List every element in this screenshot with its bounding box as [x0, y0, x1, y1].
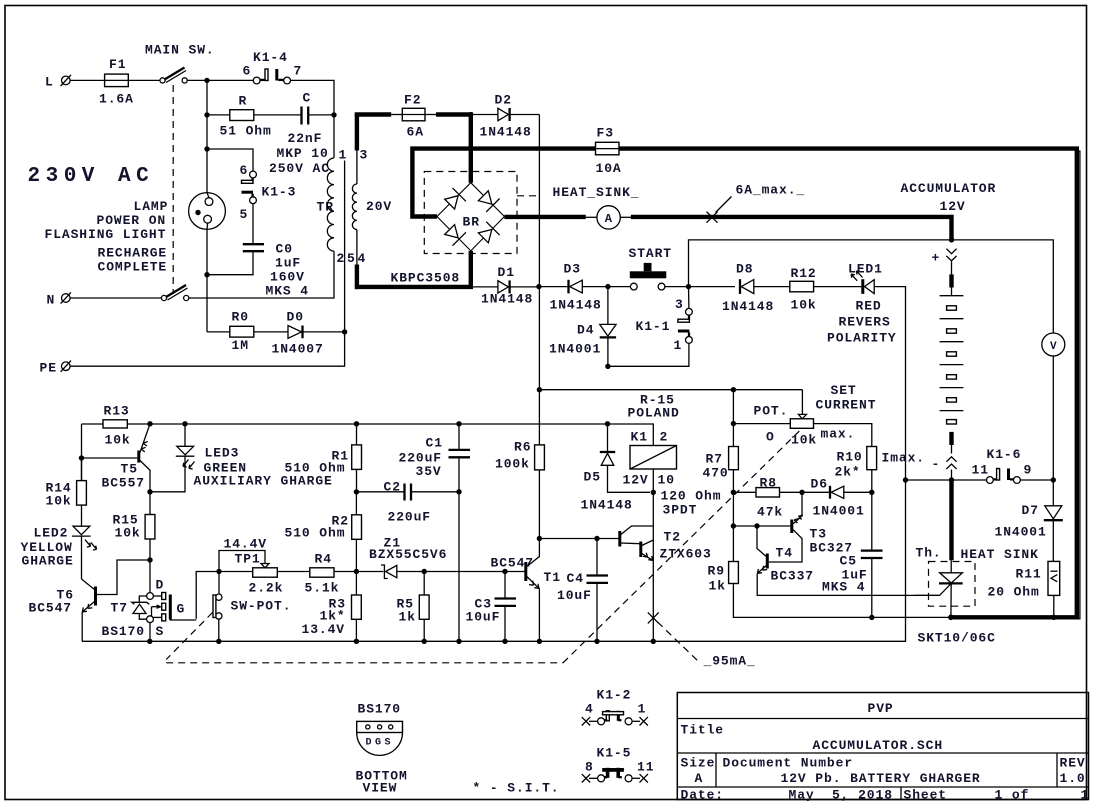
diode D6	[799, 477, 874, 519]
bridge rectifier BR dashed heatsink box	[424, 172, 541, 254]
svg-text:1N4148: 1N4148	[481, 292, 533, 307]
transistor T1 BC547	[491, 539, 561, 642]
svg-text:K1: K1	[631, 430, 648, 445]
thick wire bridge bottom to transformer	[355, 251, 471, 287]
svg-text:6: 6	[243, 64, 252, 79]
thick bottom return wire	[948, 615, 1055, 621]
svg-text:T5: T5	[121, 462, 138, 477]
svg-text:10k: 10k	[105, 433, 131, 448]
svg-text:COMPLETE: COMPLETE	[98, 260, 168, 275]
svg-text:R12: R12	[791, 266, 817, 281]
svg-text:K1-2: K1-2	[597, 688, 632, 703]
svg-text:Document Number: Document Number	[723, 756, 854, 771]
wire K1-3 to C0	[252, 204, 254, 244]
svg-text:100k: 100k	[495, 457, 530, 472]
svg-text:V: V	[1050, 341, 1057, 353]
junction at lamp branch top	[204, 78, 209, 83]
svg-text:10k: 10k	[791, 298, 817, 313]
thyristor Th	[915, 560, 963, 617]
svg-text:1: 1	[638, 702, 647, 717]
svg-text:D5: D5	[584, 470, 601, 485]
svg-text:9: 9	[1024, 463, 1033, 478]
diode D5	[581, 424, 651, 513]
diode D4	[549, 287, 616, 367]
svg-text:PE: PE	[40, 361, 57, 376]
svg-text:FLASHING LIGHT: FLASHING LIGHT	[45, 227, 167, 242]
wire LED1 down to negative node	[82, 287, 906, 642]
svg-text:1M: 1M	[232, 338, 249, 353]
svg-text:R6: R6	[514, 440, 531, 455]
svg-text:BC557: BC557	[102, 476, 146, 491]
ammeter A	[597, 206, 620, 229]
battery accumulator	[932, 249, 964, 480]
negative node wires	[903, 477, 987, 482]
fuse F3	[596, 126, 622, 177]
relay contact K1-4	[243, 50, 303, 84]
svg-text:51 Ohm: 51 Ohm	[220, 124, 272, 139]
svg-text:O: O	[766, 430, 775, 445]
capacitor C3	[466, 572, 517, 642]
svg-text:R8: R8	[760, 476, 777, 491]
svg-text:F2: F2	[404, 93, 421, 108]
svg-text:F3: F3	[597, 126, 614, 141]
LED3	[150, 424, 333, 492]
svg-text:D4: D4	[577, 323, 594, 338]
thick wire battery minus to thyristor	[949, 480, 953, 560]
svg-text:6A_max._: 6A_max._	[736, 183, 806, 198]
svg-text:D6: D6	[811, 477, 828, 492]
svg-text:MKS 4: MKS 4	[822, 580, 866, 595]
svg-text:10: 10	[658, 473, 675, 488]
node L terminal	[45, 75, 71, 90]
svg-text:1: 1	[674, 338, 683, 353]
svg-text:D2: D2	[495, 93, 512, 108]
svg-text:11: 11	[972, 463, 989, 478]
junction T5 collector node	[147, 489, 152, 494]
label HEAT_SINK_	[553, 185, 640, 200]
svg-text:1N4007: 1N4007	[272, 342, 324, 357]
svg-text:T2: T2	[664, 530, 681, 545]
svg-text:1N4148: 1N4148	[550, 298, 602, 313]
resistor R13	[103, 404, 131, 448]
resistor R7	[703, 390, 739, 526]
thyristor heatsink dashed box	[929, 562, 976, 607]
svg-text:R11: R11	[1016, 567, 1042, 582]
transistor T4 BC337	[754, 523, 939, 595]
svg-text:C5: C5	[840, 554, 857, 569]
wire switch to K1-4	[187, 79, 253, 81]
wire thick secondary top to F2	[355, 112, 403, 116]
svg-text:Imax.: Imax.	[882, 451, 926, 466]
svg-text:SET: SET	[831, 383, 857, 398]
resistor R14	[46, 458, 87, 526]
top rail of control block	[82, 421, 654, 445]
svg-text:GHARGE: GHARGE	[22, 554, 74, 569]
svg-text:_95mA_: _95mA_	[703, 654, 756, 669]
svg-text:12V: 12V	[623, 473, 649, 488]
svg-text:13.4V: 13.4V	[302, 622, 346, 637]
svg-text:F1: F1	[109, 57, 126, 72]
trimmer TP1	[219, 537, 283, 596]
svg-text:-: -	[932, 457, 941, 472]
svg-text:LED3: LED3	[205, 446, 240, 461]
svg-text:250V AC: 250V AC	[269, 161, 330, 176]
svg-text:7: 7	[294, 64, 303, 79]
svg-text:120 Ohm: 120 Ohm	[661, 489, 722, 504]
wire relay to T2 collector rail	[651, 469, 656, 641]
svg-text:S: S	[156, 624, 165, 639]
LED1	[827, 262, 897, 346]
svg-text:* - S.I.T.: * - S.I.T.	[473, 781, 560, 796]
transistor T6 BC547	[29, 579, 96, 642]
svg-text:LED2: LED2	[34, 526, 69, 541]
svg-text:KBPC3508: KBPC3508	[391, 271, 461, 286]
svg-text:K1-6: K1-6	[987, 447, 1022, 462]
svg-text:K1-4: K1-4	[253, 50, 288, 65]
BS170 package bottom view	[356, 702, 408, 796]
svg-text:35V: 35V	[416, 464, 442, 479]
label 230V AC	[28, 165, 155, 188]
svg-text:12V: 12V	[940, 199, 966, 214]
svg-text:START: START	[629, 246, 673, 261]
svg-text:N: N	[47, 293, 56, 308]
svg-text:D: D	[156, 578, 165, 593]
diode D1	[471, 265, 539, 307]
svg-text:3: 3	[675, 297, 684, 312]
diode D3	[539, 262, 608, 313]
capacitor C5	[822, 492, 883, 620]
relay K1 coil	[623, 393, 722, 518]
svg-text:K1-5: K1-5	[597, 746, 632, 761]
svg-text:2: 2	[660, 430, 669, 445]
svg-text:R10: R10	[837, 450, 863, 465]
diode D0	[272, 310, 324, 357]
svg-text:TP1: TP1	[235, 552, 261, 567]
LED2	[21, 526, 97, 579]
mechanical link dashed	[166, 431, 800, 663]
junction D4 branch	[605, 284, 610, 289]
svg-text:BC547: BC547	[29, 601, 73, 616]
svg-text:BS170: BS170	[358, 702, 402, 717]
relay contact K1-5	[582, 746, 655, 783]
relay contact K1-6	[972, 447, 1057, 483]
svg-text:SW-POT.: SW-POT.	[231, 599, 292, 614]
svg-text:R13: R13	[104, 404, 130, 419]
junction D2/D1 node	[536, 284, 541, 289]
svg-text:ACCUMULATOR.SCH: ACCUMULATOR.SCH	[813, 738, 944, 753]
svg-text:12V Pb. BATTERY GHARGER: 12V Pb. BATTERY GHARGER	[781, 771, 981, 786]
title block frame	[677, 693, 1088, 800]
bridge rectifier BR	[437, 183, 504, 251]
svg-text:Title: Title	[681, 723, 725, 738]
svg-text:5: 5	[240, 207, 249, 222]
relay contact K1-3	[240, 163, 297, 222]
wire T2 base node	[537, 536, 620, 541]
svg-text:2: 2	[337, 251, 346, 266]
resistor R1	[285, 424, 362, 495]
svg-text:G: G	[177, 602, 186, 617]
svg-text:22nF: 22nF	[288, 131, 323, 146]
capacitor C0	[243, 242, 309, 299]
svg-text:Date:: Date:	[681, 788, 725, 803]
svg-text:10k: 10k	[46, 494, 72, 509]
svg-text:1.6A: 1.6A	[99, 92, 134, 107]
svg-text:C1: C1	[426, 436, 443, 451]
svg-text:C2: C2	[384, 480, 401, 495]
svg-text:T4: T4	[776, 546, 793, 561]
wire D2 down to control node	[538, 115, 540, 287]
svg-text:SKT10/06C: SKT10/06C	[918, 631, 996, 646]
resistor R11	[988, 561, 1060, 620]
thick F3 rail	[412, 149, 1076, 618]
transformer TR secondary	[347, 114, 392, 290]
svg-text:REVERS: REVERS	[839, 315, 891, 330]
svg-text:1N4001: 1N4001	[813, 504, 865, 519]
svg-text:LAMP: LAMP	[134, 199, 169, 214]
svg-text:POWER ON: POWER ON	[97, 213, 167, 228]
svg-text:R: R	[239, 94, 248, 109]
capacitor C4	[557, 539, 608, 642]
svg-text:RED: RED	[856, 299, 882, 314]
svg-text:ZTX603: ZTX603	[660, 547, 712, 562]
svg-text:5.1k: 5.1k	[305, 581, 340, 596]
wire thick bend outline	[1075, 151, 1080, 619]
svg-text:T7: T7	[111, 601, 128, 616]
svg-text:1N4001: 1N4001	[549, 342, 601, 357]
svg-text:6: 6	[240, 163, 249, 178]
svg-text:C0: C0	[276, 242, 293, 257]
svg-text:2k*: 2k*	[835, 465, 861, 480]
svg-text:1k: 1k	[399, 610, 416, 625]
svg-text:Size: Size	[681, 756, 716, 771]
wire F2 to bridge top	[425, 112, 473, 183]
wire START to junction	[665, 284, 735, 289]
wire lamp branch vertical	[204, 80, 209, 332]
svg-text:1: 1	[1081, 788, 1090, 803]
svg-text:1N4148: 1N4148	[581, 498, 633, 513]
fuse F2	[402, 93, 425, 140]
svg-text:A: A	[695, 771, 704, 786]
thick wire ammeter to battery	[620, 217, 951, 239]
wire START feed	[608, 286, 631, 288]
svg-text:POT.: POT.	[754, 404, 789, 419]
svg-text:220uF: 220uF	[388, 510, 432, 525]
svg-text:2.2k: 2.2k	[249, 581, 284, 596]
svg-text:HEAT SINK: HEAT SINK	[961, 547, 1039, 562]
current break mark 6A max	[707, 183, 806, 223]
svg-text:1k: 1k	[709, 579, 726, 594]
svg-text:POLAND: POLAND	[628, 406, 680, 421]
fuse F1	[99, 57, 134, 107]
svg-text:MKS 4: MKS 4	[266, 284, 310, 299]
mosfet T7 BS170	[102, 560, 197, 641]
labels lamp functions	[45, 199, 169, 275]
resistor R12	[790, 266, 862, 313]
diode D8	[722, 262, 790, 315]
node PE terminal	[40, 361, 72, 376]
relay contact K1-2	[582, 688, 648, 726]
label KBPC3508	[391, 271, 461, 286]
title block texts	[681, 701, 1090, 803]
svg-text:POLARITY: POLARITY	[827, 331, 897, 346]
svg-text:1 of: 1 of	[995, 788, 1030, 803]
wire up to accumulator line	[689, 237, 1054, 333]
resistor R2	[285, 492, 362, 572]
svg-text:1N4148: 1N4148	[480, 125, 532, 140]
svg-text:14.4V: 14.4V	[224, 537, 268, 552]
svg-text:6A: 6A	[407, 125, 424, 140]
svg-text:3PDT: 3PDT	[663, 503, 698, 518]
wire N to transformer	[189, 262, 334, 298]
svg-text:LED1: LED1	[848, 262, 883, 277]
svg-text:470: 470	[703, 466, 729, 481]
svg-text:510 Ohm: 510 Ohm	[285, 526, 346, 541]
wire setpoint rail 571.5	[196, 569, 526, 619]
label ACCUMULATOR	[901, 181, 997, 214]
transformer TR primary	[317, 115, 348, 266]
resistor R9	[708, 523, 951, 617]
label Imax.	[882, 451, 926, 466]
svg-text:RECHARGE: RECHARGE	[98, 246, 168, 261]
svg-text:REV: REV	[1060, 756, 1086, 771]
main switch	[145, 43, 215, 84]
svg-text:10uF: 10uF	[466, 610, 501, 625]
svg-text:230V AC: 230V AC	[28, 165, 155, 188]
svg-text:10k: 10k	[791, 433, 817, 448]
N switch	[70, 285, 189, 301]
svg-text:D3: D3	[564, 262, 581, 277]
svg-text:K1-1: K1-1	[636, 319, 671, 334]
svg-text:8: 8	[585, 760, 594, 775]
wire F1 to main switch	[128, 79, 160, 81]
svg-text:BS170: BS170	[102, 624, 146, 639]
svg-text:1N4148: 1N4148	[722, 299, 774, 314]
wire snubber rail	[204, 112, 336, 117]
svg-text:CURRENT: CURRENT	[816, 398, 877, 413]
resistor R6	[495, 440, 544, 539]
resistor R15	[113, 492, 155, 560]
capacitor C1	[399, 424, 471, 642]
svg-text:1uF: 1uF	[275, 256, 301, 271]
svg-text:T1: T1	[544, 570, 561, 585]
diode D7	[995, 480, 1063, 561]
svg-text:1.0: 1.0	[1060, 771, 1086, 786]
svg-text:R7: R7	[706, 452, 723, 467]
resistor R10	[835, 447, 877, 493]
svg-text:4: 4	[585, 702, 594, 717]
diode D2	[471, 93, 540, 140]
wire to K1-3	[207, 149, 253, 171]
voltmeter V	[1042, 333, 1065, 480]
transistor T2 ZTX603	[620, 526, 712, 562]
thick wire bridge right to ammeter	[504, 215, 597, 220]
svg-text:11: 11	[637, 760, 654, 775]
bottom rail of control block	[147, 639, 656, 644]
svg-text:BC337: BC337	[771, 569, 815, 584]
svg-text:PVP: PVP	[868, 701, 894, 716]
svg-text:Sheet: Sheet	[904, 788, 948, 803]
wire R15 to T6 base	[97, 557, 153, 594]
svg-text:BC547: BC547	[491, 556, 535, 571]
svg-text:5: 5	[347, 251, 356, 266]
wire R0 branch	[207, 331, 345, 333]
wire K1-4 to corner x334	[291, 80, 335, 115]
svg-text:AUXILIARY GHARGE: AUXILIARY GHARGE	[194, 474, 333, 489]
wire PE to transformer core	[70, 161, 347, 367]
svg-text:1N4001: 1N4001	[995, 525, 1047, 540]
svg-text:160V: 160V	[270, 270, 305, 285]
svg-text:HEAT_SINK_: HEAT_SINK_	[553, 185, 640, 200]
svg-text:10uF: 10uF	[557, 588, 592, 603]
resistor R3	[302, 572, 362, 642]
current break mark 95mA	[648, 612, 756, 668]
svg-text:Th.: Th.	[916, 546, 942, 561]
labels Th heatsink	[916, 546, 1039, 646]
svg-text:20 Ohm: 20 Ohm	[988, 585, 1040, 600]
svg-text:R0: R0	[232, 310, 249, 325]
resistor R8	[731, 476, 802, 520]
svg-text:A: A	[605, 212, 613, 226]
svg-text:D7: D7	[1022, 503, 1039, 518]
svg-text:3: 3	[360, 148, 369, 163]
wire C0 to lamp line	[207, 251, 253, 275]
zener in T7	[132, 596, 150, 619]
svg-text:C: C	[303, 91, 312, 106]
svg-text:47k: 47k	[757, 505, 783, 520]
capacitor C (snubber)	[269, 91, 330, 177]
resistor R5	[397, 572, 430, 642]
svg-text:4: 4	[358, 251, 367, 266]
resistor R0	[230, 310, 254, 354]
svg-text:BR: BR	[463, 215, 480, 230]
capacitor C2	[356, 480, 459, 525]
neon lamp	[189, 193, 226, 230]
svg-text:max.: max.	[821, 427, 856, 442]
svg-text:R4: R4	[315, 552, 332, 567]
svg-text:C4: C4	[567, 571, 584, 586]
svg-text:1: 1	[339, 148, 348, 163]
transistor T5 BC557	[82, 424, 151, 492]
svg-text:+: +	[932, 251, 941, 266]
potentiometer POT 10k	[731, 383, 877, 448]
push button START	[629, 246, 673, 290]
node N terminal	[47, 292, 72, 307]
svg-text:May 5, 2018: May 5, 2018	[789, 788, 893, 803]
wire control feed node 390	[537, 287, 803, 445]
svg-text:DGS: DGS	[366, 738, 395, 749]
svg-text:10k: 10k	[115, 526, 141, 541]
left vertical rail	[79, 424, 84, 481]
relay contact K1-1	[605, 287, 692, 369]
svg-text:BZX55C5V6: BZX55C5V6	[369, 547, 447, 562]
svg-text:20V: 20V	[366, 199, 392, 214]
wire L to F1	[70, 79, 105, 81]
svg-text:ACCUMULATOR: ACCUMULATOR	[901, 181, 997, 196]
svg-text:D1: D1	[498, 265, 515, 280]
resistor R (snubber)	[220, 94, 272, 139]
label S.I.T.	[473, 781, 560, 796]
svg-text:VIEW: VIEW	[363, 781, 398, 796]
transistor T3 BC327	[733, 492, 853, 562]
svg-text:10A: 10A	[596, 161, 622, 176]
svg-text:T3: T3	[810, 527, 827, 542]
svg-text:K1-3: K1-3	[262, 185, 297, 200]
dashed mains separator line	[172, 85, 174, 294]
svg-text:R9: R9	[708, 564, 725, 579]
svg-text:MAIN SW.: MAIN SW.	[145, 43, 215, 58]
svg-text:D0: D0	[287, 310, 304, 325]
svg-text:L: L	[45, 75, 54, 90]
